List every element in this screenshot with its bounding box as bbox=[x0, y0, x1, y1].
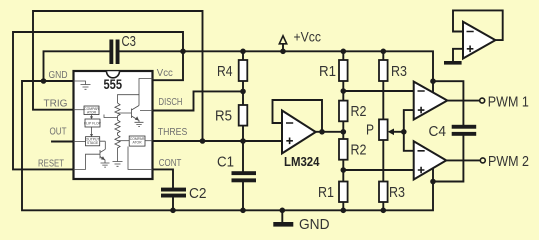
internal comparator A box bbox=[84, 106, 99, 115]
comparator U2B bbox=[414, 141, 447, 179]
wire R4-R5 stem bbox=[242, 81, 244, 105]
svg-text:STAGE: STAGE bbox=[87, 141, 99, 145]
capacitor C4 bbox=[429, 123, 477, 140]
svg-text:CONT: CONT bbox=[159, 158, 182, 169]
ground bar for U2C plus input bbox=[444, 61, 462, 65]
wire R1 bottom stem bbox=[342, 202, 344, 210]
wire LM324 feedback loop bbox=[273, 100, 323, 132]
wire R3 to potentiometer stem bbox=[382, 81, 384, 119]
svg-text:P: P bbox=[366, 122, 374, 139]
resistor R2 lower bbox=[339, 139, 367, 160]
resistor R5 bbox=[215, 105, 247, 126]
svg-text:ATOR: ATOR bbox=[87, 110, 97, 114]
wire reference column to comparator inputs bbox=[404, 110, 414, 151]
wire LM324 output bbox=[316, 131, 344, 133]
resistor R4 bbox=[217, 60, 247, 81]
wire buffer U2C feedback loop bbox=[453, 10, 503, 40]
internal chain tap to comparator A bbox=[104, 115, 118, 118]
wire Vcc rail bbox=[120, 51, 434, 81]
resistor R1 top bbox=[319, 60, 348, 81]
internal comparator B to THRES bbox=[145, 140, 153, 142]
comparator U2A bbox=[414, 82, 448, 120]
wire Vcc rail left of C3 bbox=[44, 51, 110, 81]
svg-text:R2: R2 bbox=[351, 103, 367, 120]
resistor R2 upper bbox=[339, 101, 367, 122]
svg-text:R3: R3 bbox=[389, 184, 405, 201]
internal OUT lead bbox=[74, 141, 86, 143]
wire R2-R1 junction to comparator U2B plus bbox=[343, 169, 413, 171]
svg-text:OUT: OUT bbox=[50, 127, 67, 138]
svg-text:R2: R2 bbox=[351, 142, 367, 159]
555 internal block texts bbox=[84, 107, 145, 145]
svg-text:LM324: LM324 bbox=[284, 154, 320, 169]
wire CONT to C2 bbox=[153, 169, 174, 187]
svg-text:GND: GND bbox=[49, 70, 68, 81]
internal arrow comparator A to flip flop bbox=[91, 115, 93, 118]
wire TRIG to THRES loop bbox=[33, 11, 203, 141]
svg-text:R3: R3 bbox=[391, 63, 407, 80]
555 internals bbox=[74, 79, 153, 170]
resistor R3 bottom bbox=[379, 182, 405, 203]
ground symbol GND bbox=[273, 210, 329, 233]
wire R2-R1 stem bbox=[342, 160, 344, 182]
internal output stage box bbox=[86, 137, 100, 146]
wire R1 top stem bbox=[342, 51, 344, 60]
svg-text:PWM 1: PWM 1 bbox=[488, 94, 529, 110]
wire OUT stub bbox=[52, 141, 74, 143]
pin labels bbox=[38, 68, 188, 170]
internal flip flop box bbox=[85, 119, 100, 127]
internal Vcc feed to divider chain bbox=[118, 79, 153, 104]
capacitor C2 bbox=[161, 185, 207, 202]
svg-text:C1: C1 bbox=[217, 154, 234, 171]
svg-text:C3: C3 bbox=[122, 33, 137, 50]
resistor R1 bottom bbox=[318, 182, 348, 203]
wire comparator U2B output to PWM2 bbox=[446, 159, 480, 161]
svg-text:DISCH: DISCH bbox=[159, 97, 183, 108]
svg-text:R5: R5 bbox=[215, 108, 232, 125]
svg-text:RESET: RESET bbox=[38, 159, 64, 170]
terminal PWM2 bbox=[480, 154, 529, 170]
svg-text:THRES: THRES bbox=[158, 127, 188, 138]
wire R1-R2 stem bbox=[342, 81, 344, 101]
svg-text:ATOR: ATOR bbox=[133, 140, 143, 144]
op-amp U1 LM324 buffer bbox=[282, 111, 320, 169]
wire buffer U2C plus input to ground bbox=[453, 49, 463, 61]
internal discharge transistor ground bbox=[135, 122, 144, 126]
internal divider ground bbox=[113, 162, 123, 167]
svg-text:C2: C2 bbox=[189, 185, 207, 202]
capacitor C1 bbox=[217, 154, 256, 183]
potentiometer P bbox=[366, 119, 394, 140]
internal CONT lead bbox=[128, 147, 153, 170]
IC U3 555 timer body bbox=[74, 71, 153, 179]
svg-text:+Vcc: +Vcc bbox=[294, 29, 322, 44]
svg-text:GND: GND bbox=[299, 216, 330, 233]
internal chain tap to comparator B bbox=[118, 140, 130, 142]
wire +Vcc stem bbox=[282, 44, 284, 52]
internal discharge transistor Q1 bbox=[118, 95, 153, 123]
svg-text:Vcc: Vcc bbox=[157, 68, 173, 79]
svg-text:C4: C4 bbox=[429, 123, 447, 140]
wire RESET to Vcc loop bbox=[13, 32, 183, 169]
wire THRES to LM324 plus input bbox=[153, 140, 283, 142]
resistor R3 top bbox=[379, 60, 407, 81]
wire GND pin to bottom ground rail bbox=[22, 81, 433, 210]
internal arrow flip flop to output stage bbox=[91, 127, 93, 135]
wire R4 top stem bbox=[242, 51, 244, 60]
svg-text:TRIG: TRIG bbox=[44, 99, 68, 110]
wire V+ to C4 top bbox=[433, 81, 463, 124]
internal output transistor ground bbox=[101, 163, 110, 167]
wire potentiometer wiper bbox=[392, 131, 404, 133]
svg-text:R1: R1 bbox=[318, 184, 334, 201]
capacitor C3 bbox=[109, 33, 136, 64]
internal ground at GND pin bbox=[74, 81, 91, 89]
wire R2-R2 stem bbox=[342, 121, 344, 139]
internal divider resistor 1 bbox=[115, 103, 120, 118]
+Vcc symbol bbox=[279, 29, 321, 44]
wire comparator U2A output to PWM1 bbox=[447, 100, 479, 102]
wire DISCH to R4-R5 junction bbox=[153, 91, 244, 110]
svg-text:R1: R1 bbox=[319, 63, 336, 80]
svg-text:PWM 2: PWM 2 bbox=[488, 154, 529, 170]
svg-text:FLIP FLOP: FLIP FLOP bbox=[84, 121, 102, 125]
svg-text:555: 555 bbox=[104, 76, 123, 92]
internal divider resistor 3 bbox=[115, 133, 120, 162]
internal divider resistor 2 bbox=[115, 118, 120, 134]
internal comparator B box bbox=[129, 136, 145, 146]
wire potentiometer to R3 stem bbox=[382, 140, 384, 182]
wire C2 to ground rail bbox=[172, 197, 174, 210]
internal TRIG lead bbox=[74, 109, 85, 111]
op-amp U2C unused buffer bbox=[463, 22, 495, 59]
wire R1-R2 junction to comparator U2A minus bbox=[343, 90, 413, 92]
terminal PWM1 bbox=[480, 94, 529, 110]
wire R3 top stem bbox=[382, 51, 384, 60]
wire comparator U2A V+ pin bbox=[432, 81, 434, 92]
wire C1 stems bbox=[242, 141, 244, 210]
wire R5 bottom stem bbox=[242, 126, 244, 141]
wire Vcc pin bbox=[153, 51, 184, 80]
wire R3 bottom stem bbox=[382, 202, 384, 210]
internal output transistor Q2 bbox=[74, 141, 106, 169]
wire C4 bottom to comparator U2B V- bbox=[433, 136, 463, 182]
wire comparator U2B V- pin bbox=[432, 168, 434, 181]
svg-text:R4: R4 bbox=[217, 63, 233, 80]
